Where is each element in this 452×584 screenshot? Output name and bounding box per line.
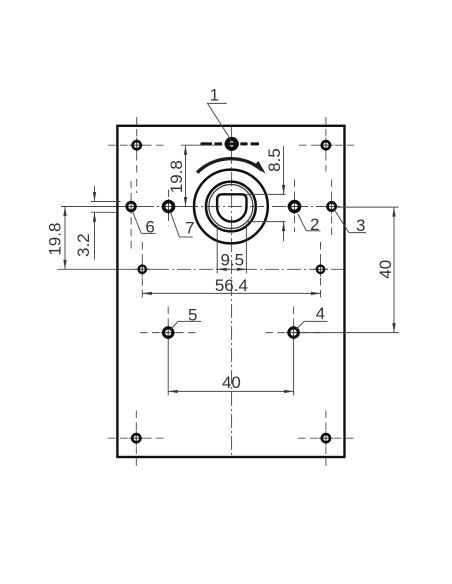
svg-text:4: 4	[316, 304, 325, 323]
svg-text:1: 1	[210, 86, 219, 105]
svg-text:40: 40	[222, 373, 241, 392]
svg-text:19.8: 19.8	[46, 223, 65, 256]
svg-text:8.5: 8.5	[265, 148, 284, 172]
svg-text:40: 40	[376, 260, 395, 279]
svg-text:5: 5	[188, 306, 197, 325]
svg-text:6: 6	[145, 217, 154, 236]
svg-text:19.8: 19.8	[167, 160, 186, 193]
svg-text:9.5: 9.5	[220, 250, 244, 269]
svg-text:7: 7	[185, 218, 194, 237]
svg-text:3.2: 3.2	[74, 233, 93, 257]
svg-text:56.4: 56.4	[215, 276, 248, 295]
svg-text:3: 3	[356, 216, 365, 235]
svg-text:2: 2	[310, 215, 319, 234]
